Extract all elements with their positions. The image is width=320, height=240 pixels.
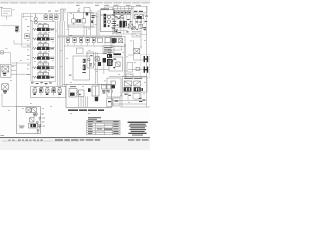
node mark top-left corner	[1, 7, 3, 8]
lower-left valve dark dot	[115, 30, 117, 32]
bottom left fine print	[8, 140, 43, 141]
travel group valve B	[134, 81, 141, 86]
spec table text dashes	[88, 121, 119, 134]
swing cluster unit 4	[52, 89, 56, 96]
valve bank section 5	[33, 63, 55, 69]
text dashes above dense cluster	[103, 53, 111, 54]
travel group valve A	[124, 81, 132, 86]
wire long horizontal y44.5	[64, 45, 122, 47]
pilot filter unit box	[68, 8, 93, 27]
manifold center valve	[92, 86, 99, 96]
valve bank section 1	[33, 25, 55, 31]
pump drain dot	[108, 25, 110, 27]
manifold text dashes top-left	[70, 85, 76, 88]
left cluster marks near motor	[113, 21, 117, 26]
swing cluster unit 1	[33, 89, 36, 95]
manifold left dark marks	[70, 93, 75, 96]
spec table shaded cells	[95, 123, 112, 132]
valve box R1	[111, 36, 125, 46]
relief valve dark mark	[16, 27, 18, 29]
pilot row valve marks	[67, 39, 94, 41]
travel motor M2	[144, 67, 149, 73]
small cap box left of bank	[25, 34, 30, 39]
pump side marks	[112, 14, 114, 28]
fan valve glyphs under header	[134, 15, 148, 19]
return filter boxes bottom-right	[107, 98, 121, 107]
bottom right fine print	[128, 139, 149, 140]
diag tap chain 1	[36, 113, 38, 116]
pilot accumulator dark marks	[45, 17, 58, 18]
chain valve segments	[82, 59, 85, 73]
solenoid block row top-right	[113, 11, 131, 15]
swing motor left arrow marks	[112, 22, 118, 29]
bottom center fine print	[55, 139, 100, 140]
right lower valve box group	[107, 78, 121, 97]
spec table dark cell	[104, 128, 112, 130]
check valve mark in notch	[86, 13, 88, 16]
blb spring and side marks	[37, 125, 42, 133]
pilot accumulator glyphs	[44, 14, 58, 20]
left travel valve box	[1, 64, 11, 77]
cooler inner marks	[91, 15, 95, 23]
wire mid horizontals	[86, 46, 122, 69]
title text block line 4	[130, 127, 145, 128]
diag tap chain 3	[37, 121, 39, 124]
solenoid valve V3	[82, 12, 85, 23]
swing brake dark marks	[3, 91, 7, 94]
top-right cluster filler wires	[113, 13, 147, 35]
marks above table right	[139, 98, 146, 102]
swing cluster unit 5	[58, 89, 61, 95]
manifold center dark bits	[88, 88, 98, 101]
wire manifold to right	[62, 84, 150, 107]
pilot pump circles	[34, 14, 37, 24]
pump box top stub	[104, 7, 112, 10]
pilot line row valves	[66, 38, 95, 43]
pressure tap x136 y68	[136, 67, 139, 70]
wire pilot top connectors	[60, 9, 66, 21]
manifold left glyph	[69, 89, 78, 98]
travel group header dashes	[124, 78, 142, 79]
title text block line 7	[128, 133, 146, 134]
valve bank section 4	[33, 53, 55, 59]
pilot pump unit box	[87, 52, 94, 68]
below travel group light box	[133, 93, 140, 99]
blb mid valve	[30, 118, 34, 122]
travel pilot valve	[134, 49, 140, 54]
blb left text dashes	[19, 126, 24, 129]
center manifold box	[66, 84, 112, 107]
R1 inner glyphs	[112, 38, 115, 43]
pilot box frame left edge	[22, 14, 60, 47]
main pump box	[100, 10, 114, 32]
valve bank section 3	[33, 44, 55, 50]
swing cluster top dashes	[34, 87, 61, 88]
main control valve bank outline	[31, 22, 56, 82]
title text block line 3	[129, 126, 147, 127]
fan pump box R2	[109, 57, 123, 71]
bank bottom connection marks	[31, 82, 52, 84]
valve bank inner connect wires	[41, 31, 47, 76]
valve bank row ref text dashes	[27, 23, 47, 75]
mid dark blob	[98, 62, 101, 66]
small mark above V2	[77, 10, 79, 11]
travel group drop wires	[128, 92, 141, 101]
swing motor dark blocks	[119, 21, 126, 28]
pilot tank rect	[68, 25, 84, 36]
right lower chain segments	[111, 81, 115, 93]
solenoid row dark marks	[114, 12, 131, 14]
gear pump circle	[133, 26, 136, 29]
wires right cluster	[120, 6, 146, 107]
main pump piston column dark	[104, 14, 107, 27]
top-right header box	[113, 6, 147, 13]
tank T1 top-left	[2, 9, 12, 20]
wires to travel motors	[128, 40, 144, 70]
top ruler tick line	[1, 2, 150, 4]
solenoid valve V1	[72, 14, 76, 25]
bottom-left valve box	[17, 107, 41, 134]
solenoid valve V2 dark	[76, 19, 80, 22]
wire vertical pair right of cooler	[98, 10, 99, 36]
shuttle box row right	[97, 37, 110, 42]
R2 small box	[116, 62, 121, 67]
wire drop pipes to center cluster	[96, 52, 104, 84]
spec table heading dashes	[88, 117, 101, 120]
text 35 label	[69, 75, 71, 76]
shuttle dark mark	[112, 38, 117, 43]
travel motor box dashed	[141, 54, 150, 77]
engine label text	[101, 8, 109, 9]
left travel valve dark marks	[3, 73, 6, 76]
relief valve left of bank	[15, 26, 20, 33]
travel group box right	[123, 77, 148, 93]
breather filter far left	[1, 51, 4, 54]
blb dark cluster	[29, 123, 38, 128]
R1 X valve	[119, 39, 123, 43]
scattered ref label specks	[6, 8, 146, 114]
right cluster X valves	[128, 24, 142, 28]
swing cluster unit 2	[39, 89, 43, 96]
swing brake valve left	[2, 84, 8, 90]
diag chain text dashes	[41, 114, 45, 127]
manifold bottom pipe comb	[79, 97, 88, 108]
gray label band under pump	[57, 35, 122, 37]
spec table frame	[87, 120, 120, 134]
manifold small box	[78, 90, 84, 97]
top scanner strip	[0, 0, 150, 3]
return filter marks	[108, 100, 118, 102]
travel motor M1	[144, 56, 149, 62]
mid X valve	[94, 57, 100, 67]
title text block line 1	[128, 122, 148, 123]
manifold right dark dashes	[102, 90, 110, 93]
bottom scanner strip	[0, 138, 150, 150]
main pump circles	[107, 15, 110, 23]
top-right cluster filler marks	[113, 15, 147, 33]
manifold caption text bar	[68, 109, 104, 111]
bottom tick line	[2, 140, 79, 142]
fan valve dark blob	[137, 16, 142, 19]
below travel group marks	[124, 94, 130, 96]
manifold right glyphs	[102, 85, 111, 89]
notes box mid-right	[103, 46, 114, 53]
title text block line 5	[129, 129, 146, 130]
R2 dark marks	[113, 59, 116, 69]
wire long horizontal y76.6 right	[109, 76, 147, 78]
blb chain marks	[33, 114, 36, 117]
diag tap chain 2	[39, 117, 41, 120]
small valve boxes lower-left of cluster	[113, 28, 118, 34]
dense block cluster mid-right	[103, 54, 113, 66]
wire top-left return	[1, 25, 16, 27]
pilot pump unit marks	[88, 55, 93, 66]
right cluster dark dashes	[136, 21, 147, 30]
relief valve second dark mark	[15, 30, 18, 32]
title text block line 6	[131, 131, 145, 132]
valve bank section 2	[33, 34, 55, 40]
oil cooler sub marks	[115, 16, 130, 20]
wire pair vertical x124	[124, 44, 125, 77]
bottom-left margin mark	[0, 134, 4, 137]
cooler box narrow	[91, 13, 97, 38]
title text block line 2	[130, 124, 146, 125]
R2 pump circle	[110, 60, 113, 63]
wire left box outputs	[11, 62, 31, 107]
comb drop wires top-right	[114, 6, 132, 10]
blb X valve pair	[26, 108, 36, 113]
diag tap chain 4	[39, 125, 41, 128]
wire breather route	[3, 40, 31, 63]
sub box with chain left-center	[73, 48, 90, 80]
swing valve cluster box	[31, 87, 66, 98]
breather light box	[132, 33, 140, 37]
travel group dark row	[124, 87, 143, 91]
aux box right of R2	[127, 63, 133, 73]
tank suction mark	[69, 35, 72, 37]
page background	[0, 0, 150, 150]
pipe bus right of valve bank	[58, 21, 65, 87]
wire pilot to pump	[84, 12, 96, 36]
notes box text dashes	[104, 47, 113, 51]
manifold small box dot	[79, 94, 81, 96]
top zone ref text dashes	[48, 5, 141, 12]
small top box above travel group	[126, 74, 133, 78]
swing cluster unit 3	[46, 89, 49, 95]
valve bank section 6	[33, 72, 55, 78]
wire swing brake drop	[2, 94, 17, 107]
left travel valve glyph	[2, 66, 9, 72]
header box inner marks	[134, 11, 143, 12]
small component above R boxes	[135, 67, 137, 69]
cap box dark dash	[26, 35, 28, 36]
title text block line 8	[132, 134, 143, 137]
spec table header fill	[87, 121, 120, 124]
diag tap chain 5	[37, 129, 39, 132]
sheet bottom border	[0, 137, 150, 139]
dark cylinder bar	[113, 53, 121, 55]
